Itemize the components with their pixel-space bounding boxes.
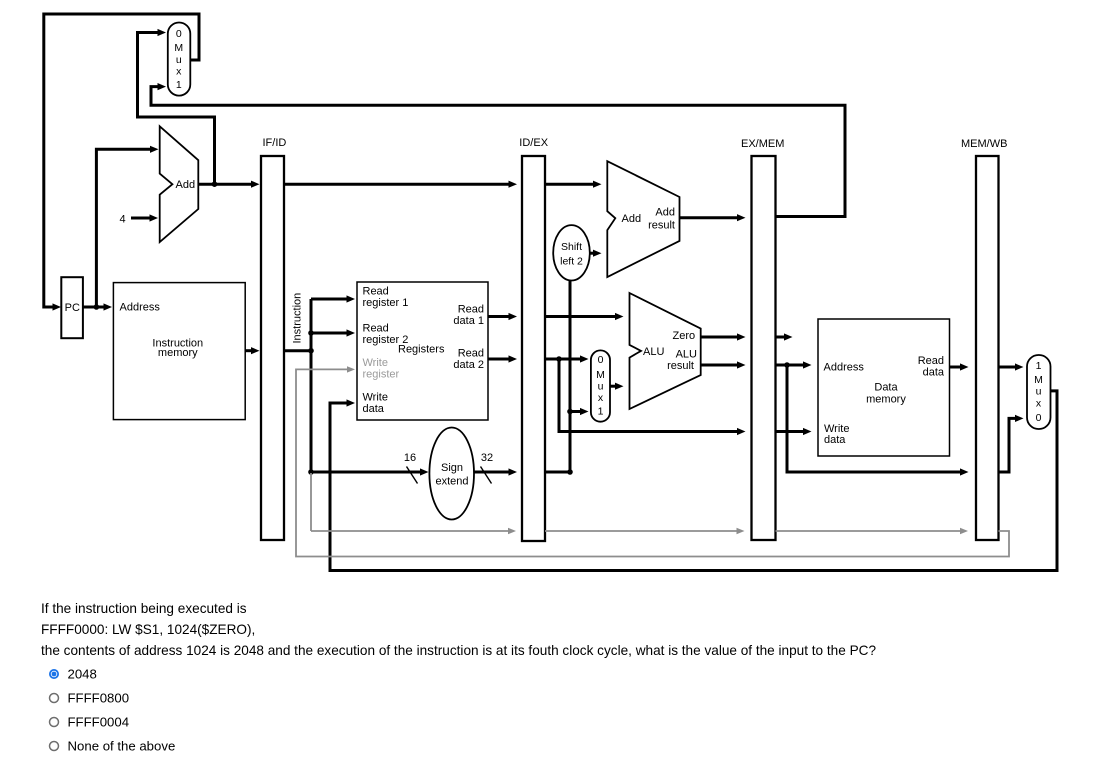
svg-text:the contents of address 1024 i: the contents of address 1024 is 2048 and…	[41, 643, 876, 658]
radio option 1 (selected): 2048	[50, 667, 97, 682]
svg-text:1: 1	[1036, 360, 1042, 372]
value label: 32 (bus width) with slash	[481, 452, 494, 484]
svg-text:register 1: register 1	[363, 297, 409, 309]
value label: 16 (bus width) with slash	[404, 452, 418, 484]
wire: instruction immediate to sign extend	[311, 468, 429, 475]
svg-text:Address: Address	[120, 302, 161, 314]
wire: ALU result bypass down to MEM/WB	[787, 365, 969, 476]
svg-text:32: 32	[481, 452, 493, 464]
wire: Read data 2 to ID/EX	[488, 355, 517, 362]
wire: PC to instruction memory Address	[83, 303, 112, 310]
wire: ALU result output to EX/MEM	[701, 361, 746, 368]
svg-text:None of the above: None of the above	[68, 739, 176, 754]
svg-text:1: 1	[598, 406, 604, 418]
svg-text:extend: extend	[435, 476, 468, 488]
svg-text:x: x	[598, 392, 604, 404]
svg-text:u: u	[1036, 386, 1042, 398]
svg-text:Write: Write	[363, 392, 388, 404]
svg-text:ALU: ALU	[643, 346, 664, 358]
wire: instruction memory output to IF/ID	[245, 347, 259, 354]
svg-text:u: u	[598, 381, 604, 393]
wire: ALU Zero output to EX/MEM	[701, 333, 746, 340]
adder Add result (branch target adder)	[607, 161, 679, 277]
wire: instruction to Read register 2	[311, 329, 355, 336]
svg-text:0: 0	[598, 354, 604, 366]
register file Registers	[357, 282, 488, 420]
svg-text:IF/ID: IF/ID	[263, 137, 287, 149]
svg-text:PC: PC	[65, 302, 80, 314]
svg-text:left 2: left 2	[560, 256, 583, 268]
data memory	[818, 319, 950, 456]
svg-text:Read: Read	[363, 323, 389, 335]
wire: instruction bus from IF/ID (vertical trunk)	[284, 299, 314, 475]
svg-text:If the instruction being execu: If the instruction being executed is	[41, 601, 247, 616]
wire: branch target from EX/MEM to mux M1 input 1	[151, 83, 845, 217]
svg-text:EX/MEM: EX/MEM	[741, 138, 784, 150]
svg-text:Write: Write	[363, 357, 388, 369]
svg-text:M: M	[174, 42, 183, 54]
svg-text:Registers: Registers	[398, 344, 445, 356]
svg-text:memory: memory	[866, 394, 906, 406]
svg-text:memory: memory	[158, 347, 198, 359]
svg-text:FFFF0800: FFFF0800	[68, 691, 130, 706]
svg-text:Read: Read	[458, 304, 484, 316]
pipeline register IF/ID	[261, 137, 286, 540]
wire: Read data 1 from ID/EX to ALU	[545, 313, 624, 320]
mux M2 (ALUSrc mux, 0/1)	[591, 350, 610, 421]
wire: write data from EX/MEM to data memory	[776, 428, 812, 435]
wire: mux M2 output to ALU	[610, 383, 624, 390]
constant 4	[120, 214, 159, 226]
svg-text:0: 0	[1036, 412, 1042, 424]
wire: memory read data from MEM/WB to mux M3 input 1	[999, 363, 1024, 370]
svg-text:Shift: Shift	[561, 241, 582, 253]
radio option 3: FFFF0004	[50, 715, 130, 730]
svg-text:x: x	[176, 66, 182, 78]
svg-text:Add: Add	[622, 213, 642, 225]
svg-text:Add: Add	[655, 207, 675, 219]
gray wire: write register number EX/MEM to MEM/WB	[776, 528, 969, 534]
wire: PC+4 feedback to mux M1 input 0	[138, 29, 218, 187]
svg-text:data: data	[923, 367, 945, 379]
svg-text:Zero: Zero	[673, 330, 696, 342]
svg-text:ALU: ALU	[676, 349, 697, 361]
wire: Zero stub after EX/MEM	[776, 333, 793, 340]
svg-text:Address: Address	[824, 362, 865, 374]
shift left 2 unit	[553, 225, 590, 280]
svg-text:data: data	[363, 403, 385, 415]
wire: write-back data from mux M3 to Registers Write data	[330, 391, 1057, 571]
wire: PC+4 from IF/ID to ID/EX	[284, 181, 517, 188]
gray wire: write register number to ID/EX	[311, 528, 516, 534]
wire: sign-extended immediate from ID/EX up to shift left 2 and mux M2 input 1	[545, 281, 589, 475]
svg-text:4: 4	[120, 214, 126, 226]
mux M1 (PC source mux, 0/1)	[168, 23, 191, 96]
wire: shift left 2 output to branch adder	[590, 250, 602, 257]
radio option 4: None of the above	[50, 739, 176, 754]
svg-text:result: result	[648, 220, 675, 232]
wire: Read data 2 down to EX/MEM (memory write data)	[559, 359, 746, 435]
svg-text:data 2: data 2	[453, 359, 484, 371]
instruction memory	[113, 283, 245, 420]
wire: ALU result from EX/MEM to data memory Address	[776, 361, 812, 368]
svg-text:Sign: Sign	[441, 462, 463, 474]
svg-text:u: u	[176, 54, 182, 66]
svg-text:M: M	[596, 369, 605, 381]
adder Add (PC+4)	[160, 126, 199, 242]
gray wire: write register number trunk from instruction	[310, 473, 312, 531]
svg-text:MEM/WB: MEM/WB	[961, 138, 1007, 150]
gray wire: write register number ID/EX to EX/MEM	[545, 528, 745, 534]
wire: PC+4 from ID/EX to branch adder	[545, 181, 602, 188]
svg-text:FFFF0004: FFFF0004	[68, 715, 130, 730]
wire: instruction to Read register 1	[311, 295, 355, 302]
wire: branch adder output to EX/MEM	[680, 214, 746, 221]
svg-text:M: M	[1034, 374, 1043, 386]
pipeline register MEM/WB	[961, 138, 1007, 540]
svg-text:data 1: data 1	[453, 315, 484, 327]
register PC	[61, 277, 83, 338]
radio option 2: FFFF0800	[50, 691, 130, 706]
svg-text:data: data	[824, 434, 846, 446]
gray wire: write register number return from MEM/WB to Registers Write register	[296, 366, 1009, 556]
svg-text:Instruction: Instruction	[292, 293, 304, 344]
svg-text:x: x	[1036, 398, 1042, 410]
svg-text:Read: Read	[458, 348, 484, 360]
sign extend unit	[429, 428, 474, 520]
svg-text:Read: Read	[363, 286, 389, 298]
svg-text:Read: Read	[918, 355, 944, 367]
wire: ALU result from MEM/WB to mux M3 input 0	[999, 415, 1024, 472]
wire: Read data 1 to ID/EX	[488, 313, 517, 320]
ALU	[630, 293, 701, 409]
svg-text:Data: Data	[874, 382, 898, 394]
wire: data memory Read data to MEM/WB	[950, 363, 969, 370]
svg-text:FFFF0000: LW $S1, 1024($ZERO),: FFFF0000: LW $S1, 1024($ZERO),	[41, 622, 255, 637]
pipeline register EX/MEM	[741, 138, 784, 540]
svg-text:2048: 2048	[68, 667, 97, 682]
svg-text:1: 1	[176, 79, 182, 91]
svg-text:result: result	[667, 360, 694, 372]
svg-text:16: 16	[404, 452, 416, 464]
mux M3 (MemtoReg mux, 1/0)	[1027, 355, 1051, 429]
wire: PC to PC+4 adder	[96, 146, 158, 307]
svg-text:register: register	[363, 369, 400, 381]
pipeline register ID/EX	[519, 137, 548, 541]
svg-text:Add: Add	[176, 179, 196, 191]
svg-text:0: 0	[176, 28, 182, 40]
wire: PC+4 adder output to IF/ID	[198, 181, 259, 188]
wire: PC-source mux output loop to PC input	[44, 14, 199, 311]
wire: Read data 2 from ID/EX to mux M2 input 0	[545, 355, 589, 362]
wire: sign extend output to ID/EX	[474, 468, 517, 475]
svg-text:ID/EX: ID/EX	[519, 137, 548, 149]
